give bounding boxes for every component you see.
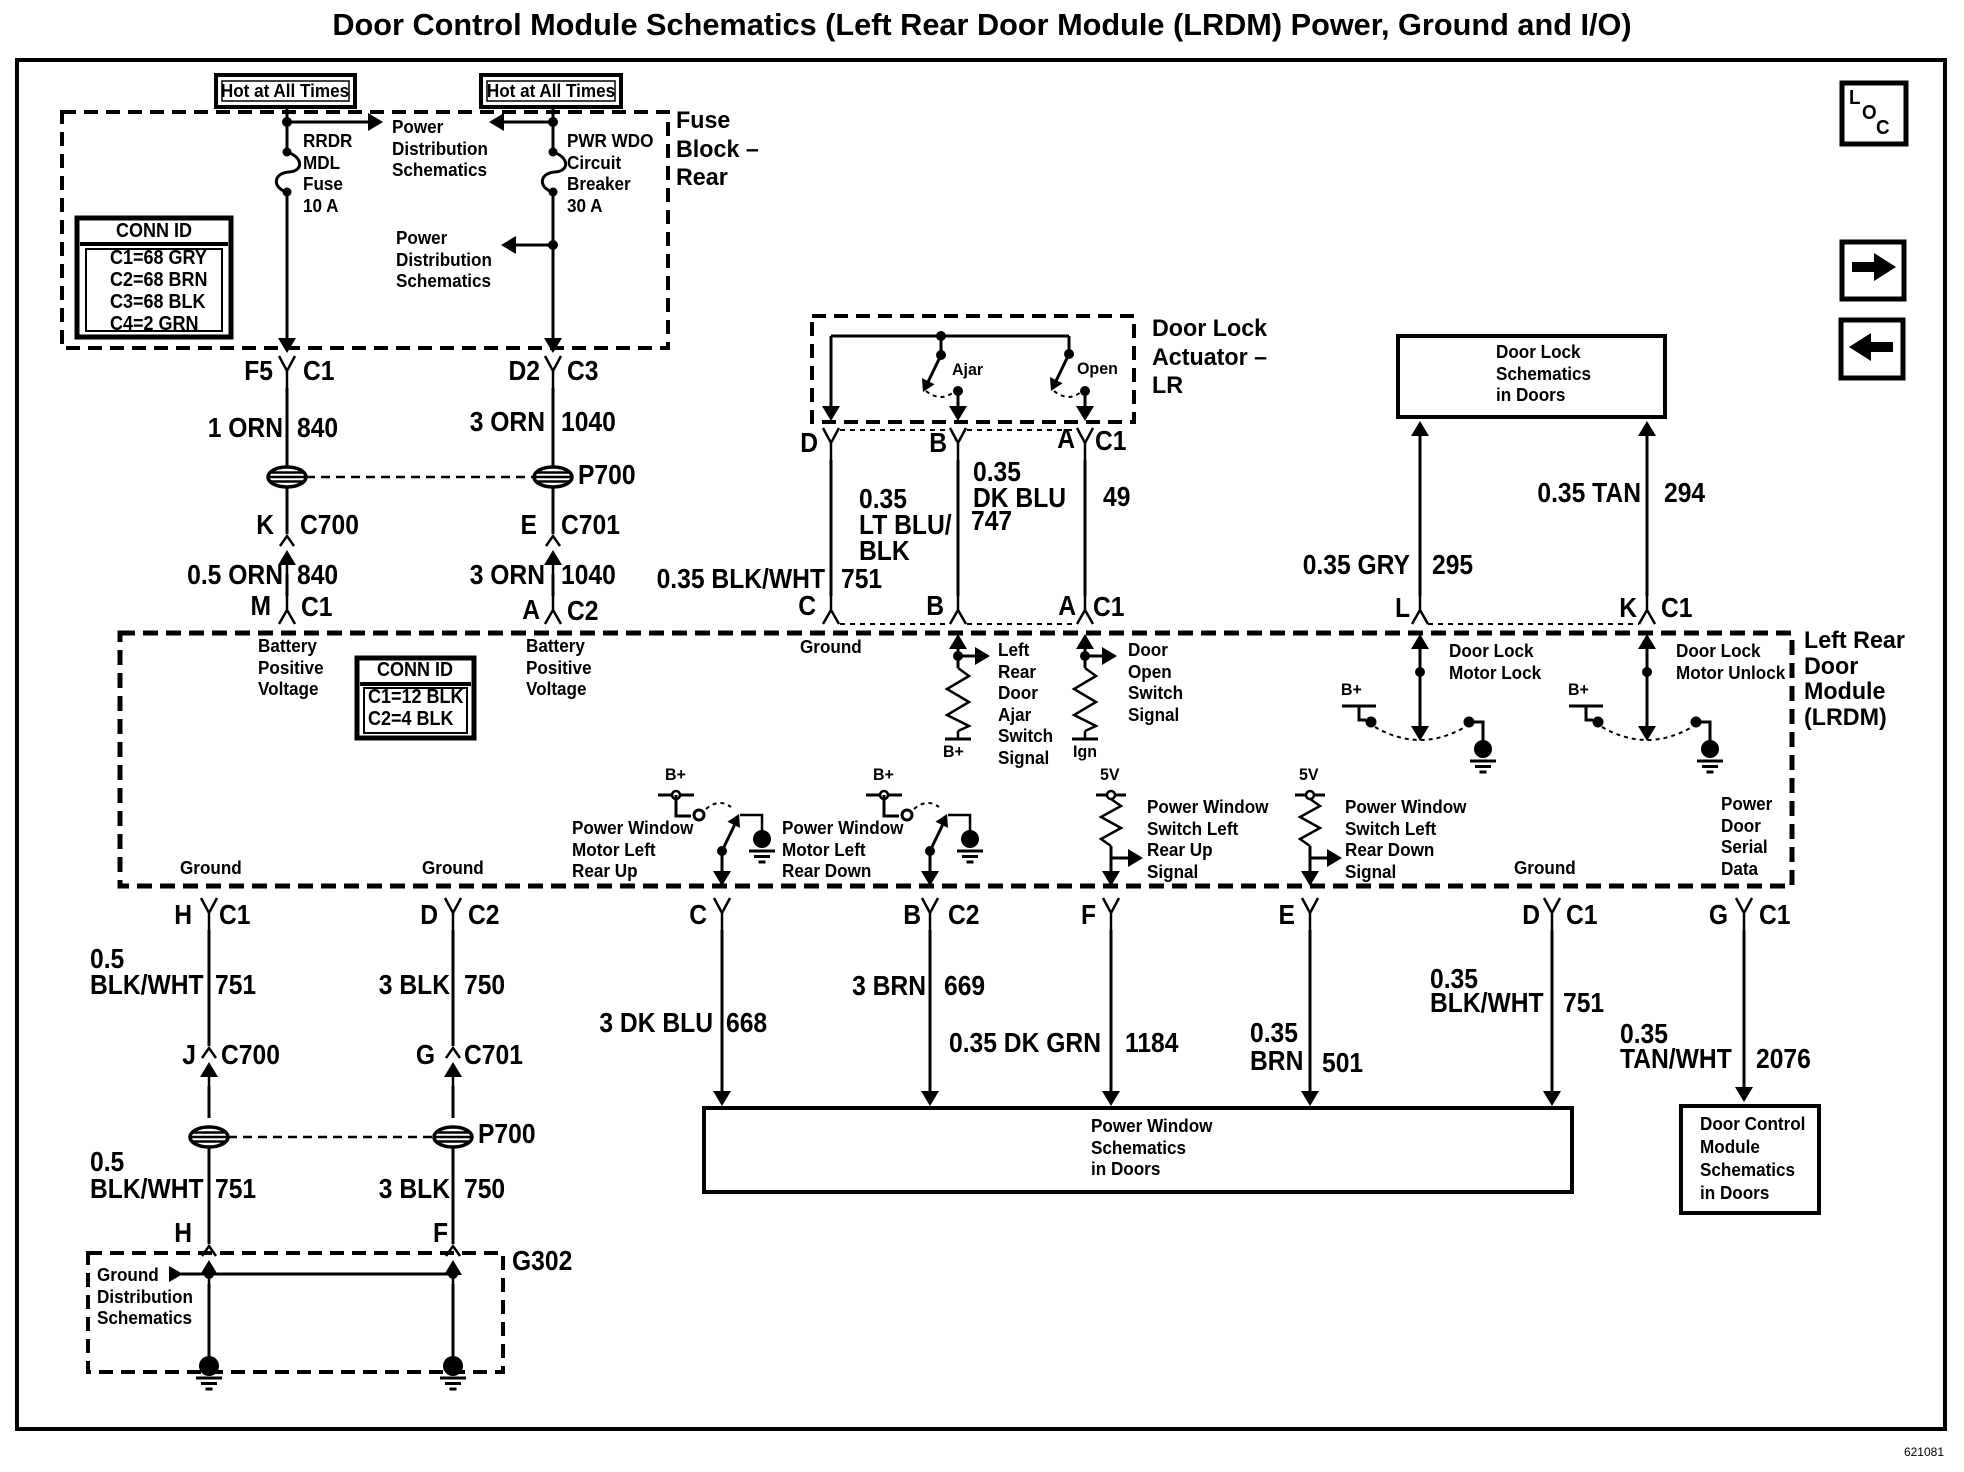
pin label H (G302) bbox=[174, 1220, 192, 1246]
B+ feed of lock driver bbox=[1342, 705, 1376, 708]
wire label 3 BLK bbox=[379, 972, 450, 998]
wire label 0.5 (H) bbox=[90, 946, 124, 972]
circuit breaker PWR WDO 30 A bbox=[542, 152, 565, 192]
inline connector C701 bbox=[546, 536, 560, 546]
Door Lock Motor Unlock label bbox=[1676, 641, 1785, 684]
wire 3 ORN 1040 from D2 to splice P700 bbox=[552, 388, 555, 467]
connector label C1 (LRDM top) bbox=[1093, 594, 1125, 620]
Power Window Motor Left Rear Up label bbox=[572, 818, 693, 883]
junction dot H ground bbox=[204, 1269, 214, 1279]
circuit number 294 bbox=[1664, 480, 1705, 506]
B+ label (unlock driver) bbox=[1568, 680, 1589, 700]
connector F5 C1 fork bbox=[279, 356, 295, 388]
pin label B (LRDM top) bbox=[926, 593, 944, 619]
pin label E bbox=[1279, 902, 1295, 928]
circuit number 2076 bbox=[1756, 1046, 1811, 1072]
wire label 0.5 ORN bbox=[187, 562, 283, 588]
previous-page left arrow bbox=[1869, 342, 1893, 352]
circuit number 747 bbox=[971, 508, 1012, 534]
wire 3 ORN 1040 from C701 to A pin bbox=[552, 574, 555, 596]
title bbox=[332, 9, 1631, 40]
wire 1 ORN 840 from F5 to splice bbox=[286, 388, 289, 467]
ajar switch blade bbox=[928, 355, 941, 382]
wire label 0.35 TAN bbox=[1537, 480, 1641, 506]
power window motor left rear up switch bbox=[658, 794, 694, 797]
wire 3 BLK 750 from D to G C701 bbox=[452, 930, 455, 1046]
Left Rear Door Ajar Switch Signal label bbox=[998, 640, 1053, 769]
Ground label (pin D right) bbox=[1514, 858, 1576, 880]
junction dot on RRDR feed bbox=[282, 117, 292, 127]
circuit number 1184 bbox=[1125, 1030, 1178, 1056]
wire label 0.35 (D) bbox=[1430, 966, 1478, 992]
CONN ID table (LRDM) bbox=[357, 658, 474, 738]
lock driver travel arc bbox=[1375, 727, 1465, 740]
wire from Hot at All Times 1 to RRDR MDL fuse bbox=[286, 107, 289, 152]
unlock driver travel arc bbox=[1602, 727, 1692, 740]
arrow into fuse block bottom edge at D2 bbox=[544, 338, 562, 353]
wire label 0.35 BLK/WHT bbox=[657, 566, 825, 592]
CONN ID title 1 bbox=[116, 220, 192, 242]
connector label C701 (G) bbox=[464, 1042, 523, 1068]
splice on circuit 751 bbox=[190, 1127, 228, 1147]
next-page arrow box bbox=[1842, 242, 1904, 299]
arrow into fuse block bottom edge at F5 bbox=[278, 338, 296, 353]
unlock driver ground contact bbox=[1691, 717, 1702, 728]
fork into LRDM pin A bbox=[545, 596, 561, 624]
wire 0.35 LT BLU/BLK 747 actuator B to LRDM B bbox=[957, 460, 960, 596]
LRDM bottom pin forks H D C B F E D G bbox=[201, 898, 217, 930]
CONN ID entries 1 bbox=[110, 247, 208, 335]
pin label G (C701) bbox=[416, 1042, 435, 1068]
Ground label (pin H) bbox=[180, 858, 242, 880]
connector label C2 (D) bbox=[468, 902, 500, 928]
circuit number 840 bbox=[297, 415, 338, 441]
Door Open Switch Signal label bbox=[1128, 640, 1183, 726]
Open label bbox=[1077, 359, 1118, 379]
wire into ground junction H bbox=[208, 1284, 211, 1360]
pin label F5 bbox=[244, 358, 273, 384]
wire from breaker to D2 pin bbox=[552, 192, 555, 340]
fork into LRDM pin C bbox=[823, 596, 839, 624]
fork into LRDM pin B bbox=[950, 596, 966, 624]
circuit number 1040 (2) bbox=[561, 562, 616, 588]
splice label P700 bbox=[578, 462, 636, 488]
wire label 1 ORN bbox=[208, 415, 283, 441]
wire label BLK/WHT (H2) bbox=[90, 1176, 204, 1202]
circuit number 501 bbox=[1322, 1050, 1363, 1076]
Ajar label bbox=[952, 360, 983, 380]
5V label (up signal) bbox=[1100, 765, 1120, 785]
wire label 0.35 DK BLU bbox=[973, 459, 1066, 511]
wire 0.5 BLK/WHT 751 from splice to H at G302 bbox=[208, 1147, 211, 1244]
wire 0.35 DK BLU 49 actuator A to LRDM A bbox=[1084, 460, 1087, 596]
door lock motor lock driver wire bbox=[1411, 634, 1429, 649]
LOC letter O bbox=[1862, 103, 1877, 123]
Power Distribution Schematics label 1 bbox=[392, 117, 488, 182]
wire 750 from C701 to splice P700 bbox=[452, 1086, 455, 1118]
pin label G bbox=[1709, 902, 1728, 928]
wire label 3 BLK (2) bbox=[379, 1176, 450, 1202]
junction dot F ground bbox=[448, 1269, 458, 1279]
ground symbol G302 left bbox=[199, 1356, 219, 1376]
wire label 0.35 GRY bbox=[1303, 552, 1410, 578]
pin label K (C700) bbox=[256, 512, 274, 538]
Door Lock Motor Lock label bbox=[1449, 641, 1541, 684]
connector label C2 bbox=[567, 598, 599, 624]
Door Control Module Schematics in Doors label bbox=[1700, 1113, 1805, 1205]
wire label 0.35 (G) bbox=[1620, 1021, 1668, 1047]
ajar switch feed stub bbox=[936, 331, 946, 341]
wire 3 BLK 750 from splice to F at G302 bbox=[452, 1147, 455, 1244]
open switch contact and wire to pin A bbox=[1080, 386, 1090, 396]
junction dot below breaker bbox=[548, 240, 558, 250]
arrow to Power Distribution Schematics (right) bbox=[287, 121, 370, 124]
Door Lock Actuator - LR label bbox=[1152, 315, 1267, 401]
wire 0.35 BLK/WHT 751 actuator D to LRDM C bbox=[830, 460, 833, 596]
inline connector C701 (ground side) bbox=[446, 1048, 460, 1058]
actuator ground-side wire to pin D bbox=[830, 336, 833, 410]
connector dotted edge L-K bbox=[1428, 623, 1639, 625]
Power Window Schematics in Doors box bbox=[704, 1108, 1572, 1192]
connector label C1 (H) bbox=[219, 902, 251, 928]
dashed splice tie line to P700 bbox=[306, 476, 534, 479]
connector label C1 (LK) bbox=[1661, 595, 1693, 621]
inline connector C700 bbox=[280, 536, 294, 546]
circuit number 668 bbox=[726, 1010, 767, 1036]
connector label C700 bbox=[300, 512, 359, 538]
circuit number 750 bbox=[464, 972, 505, 998]
wire 0.35 DK GRN 1184 from F to power window schematics bbox=[1110, 930, 1113, 1094]
pin label F bbox=[1081, 902, 1096, 928]
B+ label (lock driver) bbox=[1341, 680, 1362, 700]
wire 0.35 BLK/WHT 751 from D to power window schematics bbox=[1551, 930, 1554, 1094]
Door Control Module Schematics in Doors box bbox=[1681, 1106, 1819, 1213]
left rear door ajar switch signal pull-up resistor bbox=[949, 634, 967, 649]
pin label D2 bbox=[508, 358, 540, 384]
Left Rear Door Module (LRDM) label bbox=[1804, 628, 1905, 730]
wire 751 from C700 to splice bbox=[208, 1086, 211, 1118]
LOC letter C bbox=[1876, 118, 1890, 138]
pin label E (C701) bbox=[521, 512, 537, 538]
RRDR MDL Fuse 10 A label bbox=[303, 131, 352, 217]
pin label D (left) bbox=[420, 902, 438, 928]
wire 0.5 ORN 840 from C700 to M pin bbox=[286, 574, 289, 596]
actuator connector forks D / B / A bbox=[823, 428, 839, 460]
fork into LRDM pin A (door open) bbox=[1077, 596, 1093, 624]
fork into LRDM pin M bbox=[279, 596, 295, 624]
pin label K bbox=[1619, 595, 1637, 621]
connector label C1 (G) bbox=[1759, 902, 1791, 928]
B+ feed of unlock driver bbox=[1569, 705, 1603, 708]
Left Rear Door Module dashed box bbox=[120, 633, 1792, 886]
pin label H bbox=[174, 902, 192, 928]
Hot at All Times box 1 bbox=[216, 75, 355, 107]
Hot at All Times box 2 bbox=[481, 75, 621, 107]
wire label TAN/WHT bbox=[1620, 1046, 1732, 1072]
B+ label (window up) bbox=[665, 765, 686, 785]
actuator pin label A bbox=[1057, 426, 1075, 452]
dashed splice tie to P700 (ground) bbox=[228, 1136, 434, 1139]
ground symbol G302 right bbox=[443, 1356, 463, 1376]
wire label 0.35 (E) bbox=[1250, 1020, 1298, 1046]
wire label BLK/WHT (D) bbox=[1430, 990, 1544, 1016]
actuator pin label B bbox=[929, 430, 947, 456]
Door Lock Schematics in Doors label bbox=[1496, 342, 1591, 407]
pin label A (C2) bbox=[522, 597, 540, 623]
connector label C1 (D right) bbox=[1566, 902, 1598, 928]
B+ label (ajar resistor) bbox=[943, 742, 964, 762]
connector D2 C3 fork bbox=[545, 356, 561, 388]
Fuse Block - Rear label bbox=[676, 107, 759, 193]
B+ label (window down) bbox=[873, 765, 894, 785]
junction dot on PWR WDO feed bbox=[548, 117, 558, 127]
actuator connector label C1 bbox=[1095, 428, 1127, 454]
ajar switch travel arc bbox=[926, 391, 955, 397]
wire 3 DK BLU 668 from C to power window schematics bbox=[721, 930, 724, 1094]
wire 1040 from splice to E C701 bbox=[552, 487, 555, 534]
inline connector at G302 H bbox=[202, 1246, 216, 1256]
PWR WDO Circuit Breaker 30 A label bbox=[567, 131, 653, 217]
Door Lock Actuator - LR dashed box bbox=[812, 316, 1134, 422]
pin label C (bottom) bbox=[689, 902, 707, 928]
wire label 3 ORN bbox=[470, 409, 545, 435]
open switch feed stub bbox=[1068, 336, 1071, 354]
pin label C (LRDM top) bbox=[798, 593, 816, 619]
open switch blade bbox=[1056, 354, 1069, 381]
connector label C2 (B) bbox=[948, 902, 980, 928]
open switch travel arc bbox=[1054, 391, 1082, 397]
inline connector C700 (ground side) bbox=[202, 1048, 216, 1058]
Door Lock Schematics in Doors box bbox=[1398, 336, 1665, 417]
power window switch left rear down signal resistor bbox=[1295, 794, 1325, 797]
Power Door Serial Data label bbox=[1721, 794, 1772, 880]
arrow to Power Distribution Schematics (left, lower) bbox=[513, 244, 553, 247]
wire 840 from splice to K C700 bbox=[286, 487, 289, 534]
splice P700 bbox=[534, 467, 572, 487]
Ign label (open resistor) bbox=[1073, 742, 1097, 762]
LOC letter L bbox=[1849, 88, 1860, 108]
Ground label (pin C top) bbox=[800, 637, 862, 659]
ground label G302 bbox=[512, 1248, 572, 1274]
pin label D (right) bbox=[1522, 902, 1540, 928]
connector dotted edge (top) bbox=[840, 429, 1076, 431]
wire label 0.5 (H2) bbox=[90, 1149, 124, 1175]
Fuse Block - Rear dashed box bbox=[62, 112, 668, 348]
wire 0.35 BRN 501 from E to power window schematics bbox=[1309, 930, 1312, 1094]
connector label C1 bbox=[303, 358, 335, 384]
Ground Distribution Schematics label bbox=[97, 1265, 193, 1330]
CONN ID title 2 bbox=[377, 659, 453, 681]
Hot at All Times label 2 bbox=[487, 81, 615, 103]
pin label M bbox=[250, 593, 271, 619]
power window motor left rear down switch bbox=[866, 794, 902, 797]
Battery Positive Voltage label 1 bbox=[258, 636, 324, 701]
pin label J bbox=[182, 1042, 196, 1068]
wire 0.35 GRY 295 LRDM L to door lock schematics bbox=[1411, 421, 1429, 436]
splice P700 (ground) bbox=[434, 1127, 472, 1147]
Power Window Motor Left Rear Down label bbox=[782, 818, 903, 883]
wire 0.35 TAN/WHT 2076 from G to door control module schematics bbox=[1743, 930, 1746, 1090]
circuit number 1040 bbox=[561, 409, 616, 435]
inline connector at G302 F bbox=[446, 1246, 460, 1256]
Power Distribution Schematics label 2 bbox=[396, 228, 492, 293]
wire label 3 ORN (2) bbox=[470, 562, 545, 588]
wire from Hot at All Times 2 to PWR WDO breaker bbox=[552, 107, 555, 152]
arrow to Power Distribution Schematics (left, upper) bbox=[501, 121, 553, 124]
connector dotted edge (bottom) bbox=[840, 623, 1076, 625]
lock driver ground contact bbox=[1464, 717, 1475, 728]
connector label C1 (M) bbox=[301, 594, 333, 620]
actuator pin label D bbox=[800, 430, 818, 456]
wire 3 BRN 669 from B to power window schematics bbox=[929, 930, 932, 1094]
circuit number 751 bbox=[841, 566, 882, 592]
connector label C3 bbox=[567, 358, 599, 384]
Power Window Schematics in Doors label bbox=[1091, 1116, 1212, 1181]
circuit number 49 bbox=[1103, 484, 1130, 510]
CONN ID table (fuse block) bbox=[77, 218, 231, 337]
circuit number 750 (2) bbox=[464, 1176, 505, 1202]
Ground label (pin D) bbox=[422, 858, 484, 880]
actuator internal bus wire bbox=[831, 335, 1069, 338]
wire into ground junction F bbox=[452, 1284, 455, 1358]
previous-page arrow box bbox=[1841, 320, 1903, 378]
LOC icon box bbox=[1842, 83, 1906, 144]
fork into LRDM pin K bbox=[1639, 596, 1655, 624]
Battery Positive Voltage label 2 bbox=[526, 636, 592, 701]
connector label C700 (J) bbox=[221, 1042, 280, 1068]
wire label 3 DK BLU bbox=[599, 1010, 713, 1036]
ajar switch contact and wire to pin B bbox=[953, 386, 963, 396]
ground G302 dashed box bbox=[88, 1253, 503, 1372]
wire label BLK/WHT (H) bbox=[90, 972, 204, 998]
circuit number 669 bbox=[944, 973, 985, 999]
pin label B (bottom) bbox=[903, 902, 921, 928]
CONN ID entries 2 bbox=[368, 686, 464, 730]
wire 0.5 BLK/WHT 751 from H to J C700 bbox=[208, 930, 211, 1046]
ground distribution tie bar bbox=[169, 1266, 183, 1282]
pin label L bbox=[1395, 595, 1410, 621]
connector label C701 bbox=[561, 512, 620, 538]
wire from fuse to F5 pin bbox=[286, 192, 289, 340]
pin label F (G302) bbox=[433, 1220, 448, 1246]
Hot at All Times label 1 bbox=[221, 81, 349, 103]
5V label (down signal) bbox=[1299, 765, 1319, 785]
circuit number 751 (H2) bbox=[215, 1176, 256, 1202]
wire label BRN (E) bbox=[1250, 1048, 1303, 1074]
next-page right arrow bbox=[1852, 262, 1876, 272]
power window switch left rear up signal resistor bbox=[1096, 794, 1126, 797]
splice label P700 (ground) bbox=[478, 1121, 536, 1147]
fork into LRDM pin L bbox=[1412, 596, 1428, 624]
wire 0.35 TAN 294 LRDM K to door lock schematics bbox=[1638, 421, 1656, 436]
splice on circuit 840 bbox=[268, 467, 306, 487]
Power Window Switch Left Rear Up Signal label bbox=[1147, 797, 1268, 883]
pin label A (LRDM top) bbox=[1058, 593, 1076, 619]
Power Window Switch Left Rear Down Signal label bbox=[1345, 797, 1466, 883]
part number 621081 bbox=[1904, 1446, 1944, 1459]
circuit number 295 bbox=[1432, 552, 1473, 578]
wire label 0.35 LT BLU/BLK bbox=[859, 486, 952, 564]
door lock motor unlock driver wire bbox=[1638, 634, 1656, 649]
door open switch signal pull-up resistor bbox=[1076, 634, 1094, 649]
wire label 0.35 DK GRN bbox=[949, 1030, 1101, 1056]
wire label 3 BRN bbox=[852, 973, 926, 999]
circuit number 840 (2) bbox=[297, 562, 338, 588]
circuit number 751 (D) bbox=[1563, 990, 1604, 1016]
circuit number 751 (H) bbox=[215, 972, 256, 998]
fuse RRDR MDL 10 A bbox=[276, 152, 299, 192]
